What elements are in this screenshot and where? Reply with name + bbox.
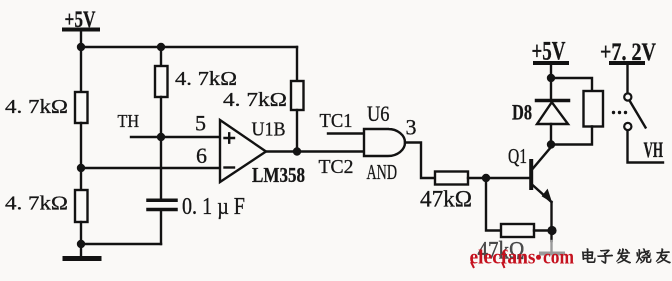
svg-text:U1B: U1B bbox=[252, 119, 286, 141]
svg-text:4. 7kΩ: 4. 7kΩ bbox=[5, 96, 68, 118]
svg-text:+5V: +5V bbox=[532, 37, 566, 66]
svg-text:VH: VH bbox=[644, 137, 664, 162]
svg-text:3: 3 bbox=[406, 115, 417, 140]
svg-text:TC1: TC1 bbox=[320, 110, 353, 132]
svg-text:+5V: +5V bbox=[65, 7, 96, 33]
svg-text:com: com bbox=[543, 248, 574, 269]
svg-text:4. 7kΩ: 4. 7kΩ bbox=[5, 193, 68, 215]
svg-text:47kΩ: 47kΩ bbox=[420, 187, 472, 212]
svg-text:4. 7kΩ: 4. 7kΩ bbox=[223, 89, 287, 111]
svg-text:TH: TH bbox=[118, 111, 140, 131]
svg-text:D8: D8 bbox=[512, 100, 532, 125]
svg-text:AND: AND bbox=[367, 160, 398, 184]
svg-text:+7. 2V: +7. 2V bbox=[600, 39, 656, 66]
svg-text:Q1: Q1 bbox=[508, 144, 527, 168]
svg-text:TC2: TC2 bbox=[319, 156, 354, 178]
svg-text:6: 6 bbox=[196, 143, 207, 168]
svg-text:5: 5 bbox=[195, 111, 206, 136]
svg-text:LM358: LM358 bbox=[252, 163, 305, 187]
svg-text:4. 7kΩ: 4. 7kΩ bbox=[175, 68, 237, 90]
svg-text:0. 1 µ F: 0. 1 µ F bbox=[182, 194, 245, 220]
svg-text:U6: U6 bbox=[367, 101, 390, 126]
